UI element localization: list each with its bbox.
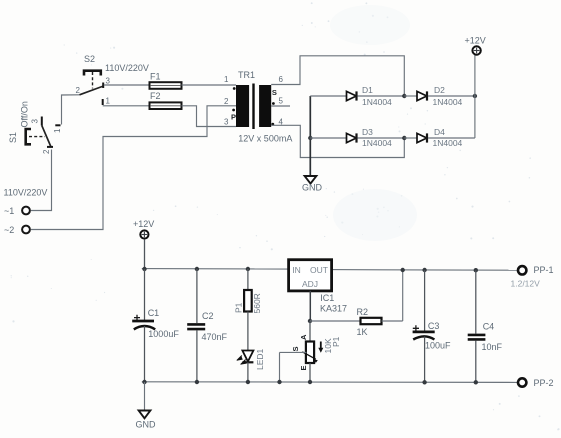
svg-text:1N4004: 1N4004 [433, 97, 463, 107]
node +12V/C1 top [142, 267, 146, 271]
svg-text:3: 3 [224, 118, 229, 127]
power +12V (lower) [133, 219, 154, 239]
wire neutral ~2 to TR1 pin2 [31, 106, 236, 230]
svg-text:IN: IN [292, 265, 301, 275]
capacitor C4 10nF [468, 268, 503, 384]
svg-text:C2: C2 [202, 311, 214, 321]
switch S1 Off/On [8, 101, 62, 154]
svg-text:+12V: +12V [133, 219, 154, 229]
svg-text:S1: S1 [8, 132, 18, 143]
svg-text:1K: 1K [357, 327, 368, 337]
wire rectifier output to +12V [474, 55, 476, 138]
node R2/output rail [401, 268, 405, 272]
svg-text:S2: S2 [84, 54, 95, 64]
wire S2 pin3 to fuse F1 [104, 84, 150, 86]
svg-text:LED1: LED1 [255, 348, 265, 370]
svg-text:P: P [231, 113, 236, 122]
svg-text:D2: D2 [434, 85, 445, 95]
node C1 bottom / ground tap [142, 380, 146, 384]
svg-text:~1: ~1 [4, 206, 14, 216]
terminal PP-2 [518, 378, 554, 388]
svg-text:110V/220V: 110V/220V [105, 63, 149, 73]
svg-text:+12V: +12V [465, 36, 486, 46]
trimmer P1 10K [277, 321, 341, 384]
svg-text:R2: R2 [357, 307, 369, 317]
svg-text:P1: P1 [331, 336, 341, 347]
svg-text:D1: D1 [362, 85, 373, 95]
transformer TR1 [224, 70, 292, 144]
terminal ~1 [4, 206, 30, 216]
svg-text:E: E [299, 365, 308, 370]
svg-text:3: 3 [31, 119, 40, 124]
svg-text:A: A [299, 334, 308, 340]
svg-text:1: 1 [106, 97, 111, 106]
power +12V (upper) [465, 36, 486, 55]
svg-text:2: 2 [224, 97, 229, 106]
svg-text:S: S [272, 88, 277, 97]
svg-text:5: 5 [279, 97, 284, 106]
node D3-D4 junction [402, 136, 406, 140]
wire R2 to output rail [402, 270, 404, 321]
terminal ~2 [4, 225, 30, 235]
svg-text:C4: C4 [483, 321, 495, 331]
svg-text:1N4004: 1N4004 [362, 138, 392, 148]
svg-text:S: S [291, 346, 300, 351]
svg-text:GND: GND [302, 183, 323, 193]
svg-text:P1: P1 [234, 302, 244, 313]
svg-text:2: 2 [76, 86, 81, 95]
fuse F1 [150, 71, 182, 88]
svg-text:560R: 560R [252, 293, 262, 313]
diode D2 1N4004 [404, 85, 475, 107]
svg-text:IC1: IC1 [320, 293, 334, 303]
capacitor C1 1000uF [132, 269, 179, 382]
svg-text:D4: D4 [434, 127, 445, 137]
LED LED1 [237, 348, 265, 384]
svg-text:100uF: 100uF [425, 340, 451, 350]
svg-text:OUT: OUT [310, 265, 328, 275]
svg-text:C1: C1 [148, 308, 160, 318]
node D1-D2 junction [402, 94, 406, 98]
svg-text:PP-2: PP-2 [534, 378, 554, 388]
diode D4 1N4004 [404, 127, 475, 148]
svg-text:6: 6 [279, 75, 284, 84]
svg-text:TR1: TR1 [238, 70, 255, 80]
switch S2 mains selector [76, 54, 149, 106]
capacitor C2 470nF [187, 267, 227, 384]
svg-text:1: 1 [53, 128, 62, 133]
svg-text:1: 1 [224, 75, 229, 84]
ground (lower) [136, 382, 157, 430]
wire top rail input side [142, 268, 289, 270]
node ADJ [308, 319, 312, 323]
svg-text:D3: D3 [362, 127, 373, 137]
svg-text:110V/220V: 110V/220V [4, 188, 48, 198]
wire bottom rail [142, 381, 517, 384]
svg-text:GND: GND [136, 420, 157, 430]
svg-text:ADJ: ADJ [302, 279, 318, 289]
node rectifier output [473, 94, 477, 98]
resistor R2 1K [310, 307, 403, 337]
svg-text:~2: ~2 [4, 225, 14, 235]
svg-text:C3: C3 [428, 321, 440, 331]
terminal PP-1 [511, 265, 554, 288]
capacitor C3 100uF [413, 268, 451, 385]
fuse F2 [150, 91, 182, 109]
wire F1 to TR1 pin1 [182, 84, 237, 86]
svg-text:F2: F2 [150, 91, 161, 101]
wire top rail output side [330, 269, 517, 272]
wire ADJ pin down [309, 291, 311, 321]
wire terminal ~1 to S1 pin2 [31, 150, 52, 211]
svg-text:3: 3 [106, 77, 111, 86]
svg-text:10nF: 10nF [482, 342, 503, 352]
svg-text:PP-1: PP-1 [534, 265, 554, 275]
wire F2 to TR1 pin3 [182, 106, 237, 127]
ground (upper) [302, 176, 323, 193]
wire D1/D3 anodes to ground [309, 96, 311, 176]
svg-text:1N4004: 1N4004 [433, 138, 463, 148]
wire TR1 pin6 to node D1-D2 [271, 56, 404, 96]
svg-text:12V x 500mA: 12V x 500mA [238, 134, 292, 144]
svg-text:1N4004: 1N4004 [362, 97, 392, 107]
wire S2 pin1 to fuse F2 [103, 105, 150, 107]
wire S2 common to S1 pin1 [62, 95, 80, 125]
svg-text:Off/On: Off/On [20, 101, 30, 127]
svg-text:1.2/12V: 1.2/12V [511, 279, 541, 289]
svg-text:470nF: 470nF [202, 332, 228, 342]
regulator IC1 KA317 [289, 260, 347, 314]
wire TR1 pin4 to node D3-D4 [271, 125, 404, 157]
wire TR1 pin5 stub [271, 105, 290, 107]
resistor P1 560R [234, 267, 263, 350]
wire +12V to top rail [144, 239, 146, 269]
svg-text:F1: F1 [150, 71, 161, 81]
diode D1 1N4004 [310, 85, 404, 107]
svg-text:2: 2 [42, 149, 51, 154]
diode D3 1N4004 [308, 127, 404, 148]
svg-text:KA317: KA317 [320, 304, 347, 314]
svg-text:1000uF: 1000uF [148, 329, 179, 339]
